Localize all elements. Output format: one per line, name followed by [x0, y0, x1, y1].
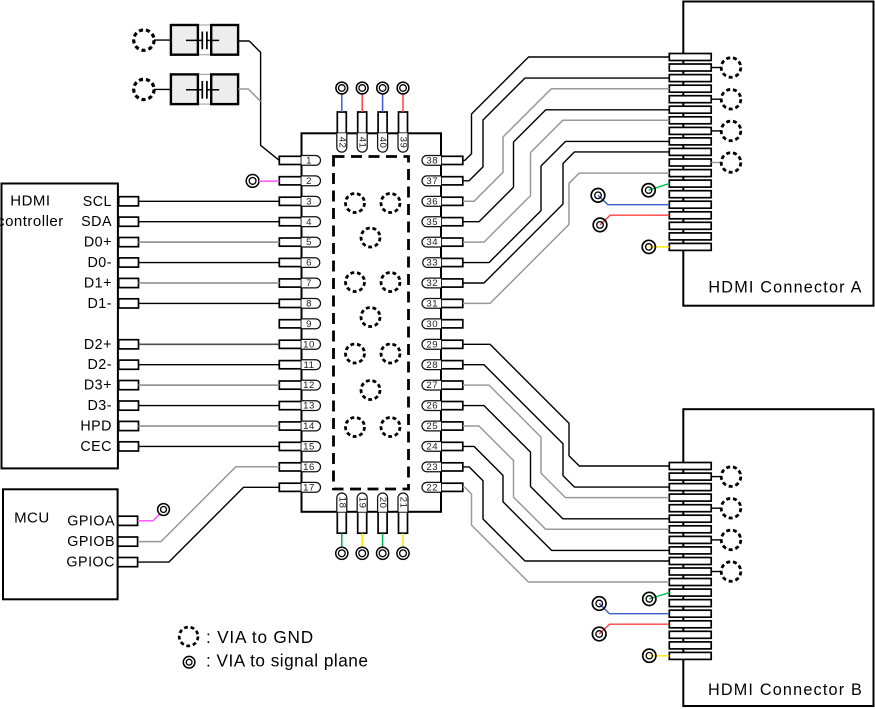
svg-text:31: 31	[426, 299, 438, 310]
wire connector A pad 2 to GND via	[711, 67, 721, 69]
connector A pad 10	[669, 148, 711, 155]
wire GPIOB to IC pin 16	[138, 467, 279, 542]
capacitor C1 footprint	[171, 25, 239, 55]
IC pin 15 (left) pad and number	[279, 442, 320, 453]
svg-text:7: 7	[306, 278, 312, 289]
via to GND at connector B pad 11	[721, 562, 741, 582]
IC pin 36 (right) pad and number	[422, 196, 463, 207]
IC pin 3 (left) pad and number	[279, 196, 320, 207]
IC U1 inner dashed keepout rectangle	[334, 157, 409, 490]
HDMI controller pin label CEC	[80, 439, 112, 455]
connector A pad 1	[669, 54, 711, 61]
connector A pad 3	[669, 75, 711, 82]
via to signal plane (blue net A)	[591, 189, 605, 203]
svg-text:39: 39	[398, 137, 409, 149]
connector A pad 13	[669, 180, 711, 187]
connector A pad 18	[669, 233, 711, 240]
svg-text:GPIOB: GPIOB	[67, 534, 115, 550]
svg-text:1: 1	[306, 156, 312, 167]
wire IC pin 24 to connector B pad 9	[463, 446, 670, 550]
legend via to GND text	[206, 627, 314, 647]
wire pin 39 to via	[402, 94, 404, 112]
via to GND at connector B pad 5	[721, 498, 741, 518]
connector B pad 12	[669, 579, 711, 586]
svg-text:35: 35	[426, 217, 438, 228]
svg-text:25: 25	[426, 421, 438, 432]
connector A pad 19	[669, 243, 711, 250]
svg-text:MCU: MCU	[14, 510, 50, 527]
via to signal plane (green net B)	[643, 592, 656, 605]
IC U1 body	[302, 133, 442, 512]
connector A pad 9	[669, 138, 711, 145]
connector B pad 19	[669, 652, 711, 659]
svg-text:5: 5	[306, 237, 312, 248]
IC pin 21 (bottom) pad and number	[398, 493, 409, 533]
legend via to signal plane text	[206, 650, 368, 670]
connector A pad 12	[669, 170, 711, 177]
via to GND at C2	[134, 79, 154, 99]
HDMI Connector A label	[708, 279, 862, 297]
connector B pad 2	[669, 473, 711, 480]
via to GND V11 inside IC	[381, 418, 400, 437]
svg-text:41: 41	[357, 137, 368, 149]
via to GND V10 inside IC	[346, 418, 365, 437]
wire IC pin 28 to connector B pad 3	[463, 365, 670, 487]
HDMI controller pin label D3-	[87, 398, 112, 414]
wire connector B pad 11 to GND via	[711, 571, 721, 573]
legend via to GND symbol	[179, 627, 198, 646]
wire connector B pad 5 to GND via	[711, 507, 721, 509]
svg-text:6: 6	[306, 258, 312, 269]
via to GND V9 inside IC	[361, 381, 380, 400]
via to signal plane below pin 21	[397, 547, 409, 559]
IC pin 40 (top) pad and number	[377, 112, 388, 152]
via to signal plane below pin 18	[336, 547, 348, 559]
connector B pad 11	[669, 568, 711, 575]
wire connector A pad 8 to GND via	[711, 130, 721, 132]
HDMI controller pad D3+	[119, 381, 139, 390]
via to GND at connector A pad 11	[721, 153, 741, 173]
HDMI controller pin label D1-	[87, 296, 112, 312]
IC pin 39 (top) pad and number	[398, 112, 409, 152]
IC pin 2 (left) pad and number	[279, 176, 320, 187]
svg-text:CEC: CEC	[80, 439, 112, 455]
HDMI controller label	[0, 193, 64, 231]
svg-text:controller: controller	[0, 213, 64, 230]
via to signal plane at GPIOA	[158, 504, 170, 516]
MCU pad GPIOC	[118, 558, 138, 567]
HDMI controller pad D3-	[119, 401, 139, 410]
wire IC pin 33 to connector A pad 9	[463, 141, 670, 262]
connector B pad 4	[669, 494, 711, 501]
svg-text:HDMI Connector A: HDMI Connector A	[708, 279, 862, 297]
wire pin 41 to via	[361, 94, 363, 112]
via to signal plane (green net A)	[642, 184, 655, 197]
svg-text:18: 18	[336, 497, 347, 509]
wire IC pin 31 to connector A pad 12	[463, 173, 670, 303]
IC pin 32 (right) pad and number	[422, 278, 463, 289]
svg-text:GPIOC: GPIOC	[66, 555, 115, 571]
wire IC pin 27 to connector B pad 4	[463, 385, 670, 498]
via to GND V6 inside IC	[361, 308, 380, 327]
svg-text:D2-: D2-	[87, 357, 112, 373]
via to signal plane (red net A)	[593, 218, 607, 232]
connector A pad 11	[669, 159, 711, 166]
svg-text:24: 24	[426, 442, 438, 453]
wire HPD to IC pin 14	[139, 425, 280, 427]
wire connector B pad 8 to GND via	[711, 539, 721, 541]
HDMI controller pad D1-	[119, 299, 139, 308]
wire D3- to IC pin 13	[139, 405, 280, 407]
connector B pad 13	[669, 589, 711, 596]
via to GND at C1	[134, 30, 154, 50]
MCU pin label GPIOA	[67, 513, 115, 529]
svg-text:14: 14	[303, 421, 315, 432]
IC pin 5 (left) pad and number	[279, 237, 320, 248]
svg-text:21: 21	[398, 497, 409, 509]
IC pin 14 (left) pad and number	[279, 421, 320, 432]
via to GND V1 inside IC	[346, 194, 365, 213]
via to GND at connector A pad 2	[721, 58, 741, 78]
via to signal plane above pin 40	[377, 82, 389, 94]
svg-text:: VIA to signal plane: : VIA to signal plane	[206, 650, 368, 670]
IC pin 23 (right) pad and number	[422, 462, 463, 473]
svg-text:D0-: D0-	[87, 255, 112, 271]
svg-text:32: 32	[426, 278, 438, 289]
MCU pad GPIOB	[118, 537, 138, 546]
connector A pad 2	[669, 64, 711, 71]
wire pin 21 to via	[402, 534, 404, 548]
svg-text:4: 4	[306, 217, 312, 228]
via to signal plane (yellow net B)	[643, 649, 656, 662]
connector B pad 5	[669, 505, 711, 512]
via to signal plane (blue net B)	[592, 597, 606, 611]
wire D1- to IC pin 8	[139, 302, 280, 304]
connector B pad 7	[669, 526, 711, 533]
wire via to IC pin 2	[259, 180, 279, 182]
svg-text:34: 34	[426, 237, 438, 248]
wire IC pin 38 to connector A pad 1	[463, 57, 670, 160]
HDMI controller pad D0+	[119, 238, 139, 247]
svg-text:40: 40	[377, 137, 388, 149]
connector A pad 17	[669, 222, 711, 229]
HDMI controller pin label D2-	[87, 357, 112, 373]
via to GND at connector A pad 5	[721, 89, 741, 109]
IC pin 34 (right) pad and number	[422, 237, 463, 248]
HDMI Connector B label	[708, 681, 863, 699]
HDMI controller pad D1+	[119, 278, 139, 287]
svg-text:26: 26	[426, 401, 438, 412]
IC pin 24 (right) pad and number	[422, 442, 463, 453]
connector A pad 7	[669, 117, 711, 124]
connector A pad 6	[669, 106, 711, 113]
IC pin 27 (right) pad and number	[422, 380, 463, 391]
wire green via to connector B pad 13	[649, 593, 669, 599]
svg-text:HDMI: HDMI	[10, 193, 50, 210]
wire blue via to connector B pad 15	[599, 604, 669, 614]
wire IC pin 22 to connector B pad 12	[463, 487, 670, 582]
wire red via to connector B pad 16	[599, 624, 669, 634]
connector B pad 10	[669, 558, 711, 565]
HDMI controller pad SDA	[119, 217, 139, 226]
via to GND at connector A pad 8	[721, 121, 741, 141]
HDMI controller box	[2, 184, 118, 469]
svg-text:10: 10	[303, 339, 315, 350]
svg-text:HDMI Connector B: HDMI Connector B	[708, 681, 863, 699]
svg-text:D0+: D0+	[84, 235, 112, 251]
wire D0- to IC pin 6	[139, 262, 280, 264]
svg-text:SCL: SCL	[83, 194, 112, 210]
connector B pad 16	[669, 621, 711, 628]
svg-text:D3-: D3-	[87, 398, 112, 414]
IC pin 9 (left) pad and number	[279, 319, 320, 330]
connector B pad 8	[669, 536, 711, 543]
wire via to C2	[154, 88, 171, 90]
IC pin 16 (left) pad and number	[279, 462, 320, 473]
wire yellow via to connector B pad 19	[649, 655, 669, 657]
svg-text:D2+: D2+	[84, 337, 112, 353]
connector B pad 3	[669, 484, 711, 491]
svg-text:42: 42	[336, 137, 347, 149]
svg-text:17: 17	[303, 482, 315, 493]
svg-text:22: 22	[426, 482, 438, 493]
connector A pad 4	[669, 85, 711, 92]
svg-text:30: 30	[426, 319, 438, 330]
HDMI controller pad CEC	[119, 442, 139, 451]
via to signal plane below pin 19	[356, 547, 368, 559]
wire SCL to IC pin 3	[139, 200, 280, 202]
HDMI controller pin label D3+	[84, 378, 112, 394]
IC pin 29 (right) pad and number	[422, 339, 463, 350]
IC pin 42 (top) pad and number	[336, 112, 347, 152]
via to signal plane above pin 41	[356, 82, 368, 94]
wire pin 19 to via	[361, 534, 363, 548]
MCU pin label GPIOC	[66, 555, 115, 571]
MCU pad GPIOA	[118, 516, 138, 525]
svg-text:28: 28	[426, 360, 438, 371]
svg-text:15: 15	[303, 442, 315, 453]
HDMI controller pad D2-	[119, 360, 139, 369]
HDMI controller pin label SCL	[83, 194, 112, 210]
via to GND V4 inside IC	[346, 273, 365, 292]
IC pin 7 (left) pad and number	[279, 278, 320, 289]
IC pin 20 (bottom) pad and number	[377, 493, 388, 533]
via to signal plane (yellow net A)	[642, 240, 655, 253]
svg-text:38: 38	[426, 156, 438, 167]
via to GND V5 inside IC	[381, 273, 400, 292]
IC pin 22 (right) pad and number	[422, 482, 463, 493]
via to signal plane below pin 20	[377, 547, 389, 559]
svg-text:9: 9	[306, 319, 312, 330]
wire D2- to IC pin 11	[139, 364, 280, 366]
IC pin 13 (left) pad and number	[279, 401, 320, 412]
IC pin 17 (left) pad and number	[279, 482, 320, 493]
wire red via to connector A pad 16	[600, 215, 669, 225]
via to signal plane above pin 39	[397, 82, 409, 94]
connector B pad 9	[669, 547, 711, 554]
svg-text:GPIOA: GPIOA	[67, 513, 115, 529]
via to signal plane above pin 42	[336, 82, 348, 94]
svg-text:20: 20	[377, 497, 388, 509]
connector A pad 8	[669, 127, 711, 134]
connector B pad 17	[669, 631, 711, 638]
via to GND V8 inside IC	[381, 344, 400, 363]
wire pin 20 to via	[382, 534, 384, 548]
connector A pad 5	[669, 96, 711, 103]
IC pin 33 (right) pad and number	[423, 258, 463, 269]
wire yellow via to connector A pad 19	[649, 246, 670, 248]
HDMI controller pin label D0+	[84, 235, 112, 251]
via to GND V3 inside IC	[361, 228, 380, 247]
HDMI controller pin label D2+	[84, 337, 112, 353]
via to GND at connector B pad 8	[721, 530, 741, 550]
legend via to signal plane symbol	[183, 656, 195, 668]
svg-text:D3+: D3+	[84, 378, 112, 394]
IC pin 25 (right) pad and number	[422, 421, 463, 432]
IC pin 10 (left) pad and number	[279, 339, 320, 350]
wire pin 18 to via	[341, 534, 343, 548]
connector B pad 18	[669, 642, 711, 649]
IC pin 28 (right) pad and number	[422, 360, 463, 371]
svg-text:13: 13	[303, 401, 315, 412]
wire GPIOA to via	[138, 514, 160, 521]
via to GND V2 inside IC	[381, 194, 400, 213]
wire IC pin 26 to connector B pad 6	[463, 406, 670, 519]
IC pin 30 (right) pad and number	[422, 319, 463, 330]
wire CEC to IC pin 15	[139, 445, 280, 447]
IC pin 11 (left) pad and number	[279, 360, 320, 371]
IC pin 31 (right) pad and number	[422, 299, 463, 310]
wire IC pin 35 to connector A pad 6	[463, 110, 670, 222]
svg-text:37: 37	[426, 176, 438, 187]
svg-text:11: 11	[304, 360, 315, 371]
IC pin 19 (bottom) pad and number	[357, 493, 368, 533]
wire IC pin 34 to connector A pad 7	[463, 120, 670, 242]
connector B pad 1	[669, 463, 711, 470]
HDMI controller pad D2+	[119, 340, 139, 349]
via to signal plane (red net B)	[592, 627, 606, 641]
wire GPIOC to IC pin 17	[138, 487, 279, 562]
svg-text:19: 19	[357, 497, 368, 509]
wire connector A pad 5 to GND via	[711, 98, 721, 100]
HDMI controller pin label D1+	[84, 276, 112, 292]
capacitor C2 footprint	[171, 74, 239, 104]
MCU pin label GPIOB	[67, 534, 115, 550]
IC pin 6 (left) pad and number	[279, 258, 320, 269]
svg-text:23: 23	[426, 462, 438, 473]
HDMI controller pin label D0-	[87, 255, 112, 271]
wire C1 to IC pin 1	[238, 41, 279, 160]
wire green via to connector A pad 13	[649, 184, 670, 191]
connector A pad 15	[669, 201, 711, 208]
svg-text:36: 36	[426, 196, 438, 207]
connector A pad 14	[669, 191, 711, 198]
svg-text:D1-: D1-	[87, 296, 112, 312]
wire D2+ to IC pin 10	[139, 343, 280, 345]
MCU box	[3, 489, 118, 599]
IC pin 37 (right) pad and number	[422, 176, 463, 187]
IC pin 26 (right) pad and number	[422, 401, 463, 412]
svg-text:SDA: SDA	[81, 214, 112, 230]
svg-text:HPD: HPD	[80, 419, 112, 435]
svg-text:16: 16	[303, 462, 315, 473]
IC pin 8 (left) pad and number	[279, 299, 320, 310]
IC pin 18 (bottom) pad and number	[336, 493, 347, 533]
wire D1+ to IC pin 7	[139, 282, 280, 284]
IC pin 38 (right) pad and number	[422, 156, 463, 167]
MCU label	[14, 510, 50, 527]
connector A pad 16	[669, 212, 711, 219]
wire IC pin 29 to connector B pad 1	[463, 344, 670, 466]
wire connector B pad 2 to GND via	[711, 476, 721, 478]
HDMI Connector A box	[683, 2, 873, 306]
HDMI controller pin label HPD	[80, 419, 112, 435]
wire C2 to pin 1 net	[238, 89, 260, 101]
IC pin 41 (top) pad and number	[357, 112, 368, 152]
wire via to C1	[154, 39, 171, 41]
HDMI controller pad SCL	[119, 197, 139, 206]
HDMI controller pad HPD	[119, 421, 139, 430]
svg-text:27: 27	[426, 380, 438, 391]
HDMI Connector B box	[683, 409, 873, 706]
IC pin 35 (right) pad and number	[422, 217, 463, 228]
wire IC pin 37 to connector A pad 3	[463, 78, 670, 181]
wire blue via to connector A pad 15	[598, 195, 669, 204]
svg-text:: VIA to GND: : VIA to GND	[206, 627, 314, 647]
HDMI controller pin label SDA	[81, 214, 112, 230]
svg-text:33: 33	[426, 258, 438, 269]
wire IC pin 32 to connector A pad 10	[463, 152, 670, 283]
svg-text:8: 8	[306, 299, 312, 310]
connector B pad 14	[669, 600, 711, 607]
wire D0+ to IC pin 5	[139, 241, 280, 243]
wire D3+ to IC pin 12	[139, 384, 280, 386]
wire IC pin 23 to connector B pad 10	[463, 467, 670, 561]
HDMI controller pad D0-	[119, 258, 139, 267]
wire SDA to IC pin 4	[139, 221, 280, 223]
wire connector A pad 11 to GND via	[711, 162, 721, 164]
via to GND V7 inside IC	[346, 344, 365, 363]
svg-text:3: 3	[306, 196, 312, 207]
IC pin 4 (left) pad and number	[279, 217, 320, 228]
svg-text:29: 29	[426, 339, 438, 350]
via to GND at connector B pad 2	[721, 467, 741, 487]
connector B pad 6	[669, 515, 711, 522]
connector B pad 15	[669, 610, 711, 617]
IC pin 12 (left) pad and number	[279, 380, 320, 391]
wire pin 40 to via	[382, 94, 384, 112]
IC pin 1 (left) pad and number	[279, 156, 320, 167]
wire IC pin 36 to connector A pad 4	[463, 89, 670, 202]
svg-text:D1+: D1+	[84, 276, 112, 292]
svg-text:12: 12	[303, 380, 315, 391]
via to signal plane at IC pin 2	[246, 175, 259, 188]
svg-text:2: 2	[306, 176, 312, 187]
wire pin 42 to via	[341, 94, 343, 112]
wire IC pin 25 to connector B pad 7	[463, 426, 670, 529]
